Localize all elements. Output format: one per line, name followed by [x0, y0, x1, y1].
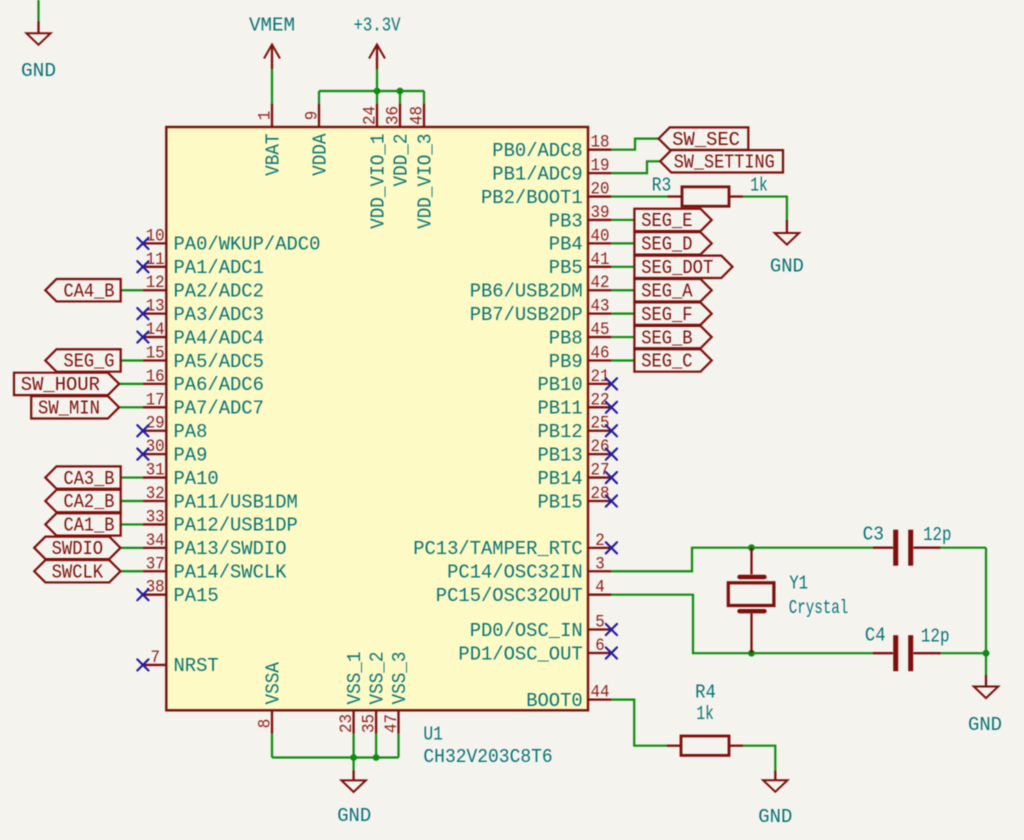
pin 31 PA10 (left) — [143, 462, 219, 490]
svg-text:PB15: PB15 — [538, 491, 583, 513]
svg-text:1k: 1k — [696, 703, 713, 725]
net name GND (near R4) — [758, 806, 792, 828]
pin 9 VDDA (top) — [304, 104, 332, 176]
wire pin4 (PC15) to crystal bottom net — [611, 595, 751, 654]
svg-text:16: 16 — [146, 368, 165, 387]
pin 42 PB6/USB2DM (right) — [470, 274, 612, 302]
no-connect X on pin 10 — [137, 238, 148, 249]
svg-text:PB7/USB2DP: PB7/USB2DP — [470, 304, 583, 326]
no-connect X on pin 14 — [137, 331, 148, 342]
global label SWDIO — [34, 537, 120, 560]
svg-text:PA3/ADC3: PA3/ADC3 — [174, 304, 264, 326]
wire VDD bus horizontal — [319, 90, 424, 92]
svg-text:GND: GND — [968, 714, 1002, 736]
svg-text:VSSA: VSSA — [263, 662, 285, 705]
wire pin to SEG_F — [611, 313, 634, 315]
svg-text:VSS_2: VSS_2 — [367, 652, 389, 705]
pin 45 PB8 (right) — [549, 321, 612, 349]
wire R3 to GND — [743, 197, 787, 220]
wire pin to SEG_C — [611, 359, 634, 361]
svg-text:9: 9 — [304, 111, 323, 121]
ground symbol (bottom) — [341, 770, 365, 792]
wire bus to pin 36 — [399, 91, 401, 104]
wire pin18 to SW_SEC — [611, 139, 658, 150]
ground symbol (top-left) — [26, 22, 50, 45]
Y1 value Crystal — [789, 597, 849, 619]
pin 44 BOOT0 (right) — [526, 684, 611, 712]
svg-text:SEG_D: SEG_D — [641, 234, 692, 256]
svg-text:VDD_VIO_1: VDD_VIO_1 — [368, 134, 390, 229]
svg-text:26: 26 — [591, 438, 610, 457]
svg-text:8: 8 — [257, 719, 276, 729]
power symbol +3.3V arrow — [369, 45, 385, 70]
svg-text:SWDIO: SWDIO — [52, 538, 104, 560]
U1 reference field — [423, 724, 443, 746]
svg-text:PD0/OSC_IN: PD0/OSC_IN — [470, 620, 583, 642]
wire bus to pin 24 — [376, 91, 378, 104]
svg-text:PB9: PB9 — [549, 351, 583, 373]
svg-text:31: 31 — [146, 462, 165, 481]
wire BOOT0 to R4 — [611, 700, 667, 746]
global label SEG_F — [634, 302, 711, 325]
svg-text:1k: 1k — [750, 175, 768, 197]
svg-text:PB12: PB12 — [538, 421, 583, 443]
pin 28 PB15 (right) — [538, 485, 612, 513]
no-connect X on pin 28 — [606, 495, 617, 506]
junction crystal bottom — [748, 650, 755, 657]
pin 36 VDD_2 (top) — [385, 104, 413, 187]
wire pin to SEG_D — [611, 242, 634, 244]
wire VSS bus to GND — [353, 758, 355, 771]
pin 39 PB3 (right) — [549, 204, 612, 232]
svg-text:39: 39 — [591, 204, 610, 223]
svg-text:SEG_DOT: SEG_DOT — [641, 257, 713, 279]
wire SEG_G to pin — [121, 359, 143, 361]
global label SW_HOUR — [14, 373, 119, 396]
pin 1 VBAT (top) — [257, 104, 285, 176]
no-connect X on pin 11 — [137, 261, 148, 272]
svg-text:VDD_2: VDD_2 — [391, 134, 413, 187]
svg-text:CA1_B: CA1_B — [64, 515, 115, 537]
svg-text:VDD_VIO_3: VDD_VIO_3 — [415, 134, 437, 229]
svg-text:PA1/ADC1: PA1/ADC1 — [174, 257, 264, 279]
ground symbol (near R3) — [775, 220, 799, 245]
wire to top-left GND — [37, 0, 39, 22]
svg-text:SWCLK: SWCLK — [52, 561, 104, 583]
pin 20 PB2/BOOT1 (right) — [481, 181, 611, 209]
no-connect X on pin 6 — [606, 647, 617, 658]
junction VSS_1 bus — [350, 754, 357, 761]
global label SEG_E — [634, 209, 711, 232]
svg-text:C4: C4 — [865, 624, 886, 646]
svg-text:C3: C3 — [863, 523, 884, 545]
svg-text:GND: GND — [21, 60, 56, 82]
wire pin23 VSS_1 down — [353, 734, 355, 758]
svg-text:SEG_F: SEG_F — [641, 304, 692, 326]
pin 8 VSSA (bottom) — [257, 662, 285, 734]
wire crystal top net to C3 — [752, 547, 874, 549]
svg-text:12p: 12p — [923, 524, 951, 546]
svg-text:GND: GND — [770, 256, 804, 278]
svg-text:42: 42 — [591, 274, 610, 293]
capacitor C4 — [873, 635, 941, 671]
pin 22 PB11 (right) — [538, 391, 612, 419]
svg-text:35: 35 — [361, 714, 380, 733]
pin 5 PD0/OSC_IN (right) — [470, 614, 612, 642]
svg-text:Crystal: Crystal — [789, 597, 849, 619]
net name GND (near R3) — [770, 256, 804, 278]
svg-text:20: 20 — [591, 181, 610, 200]
svg-text:34: 34 — [146, 532, 165, 551]
svg-text:PA15: PA15 — [174, 585, 219, 607]
pin 10 PA0/WKUP/ADC0 (left) — [143, 227, 321, 255]
global label CA3_B — [45, 466, 120, 489]
pin 18 PB0/ADC8 (right) — [492, 134, 611, 162]
svg-text:12: 12 — [146, 274, 165, 293]
svg-text:PA6/ADC6: PA6/ADC6 — [174, 374, 264, 396]
R3 reference label — [652, 175, 672, 197]
svg-text:SEG_E: SEG_E — [641, 210, 692, 232]
svg-text:28: 28 — [591, 485, 610, 504]
ground symbol (near R4) — [763, 771, 787, 792]
pin 17 PA7/ADC7 (left) — [143, 391, 264, 419]
svg-text:4: 4 — [595, 579, 605, 598]
junction right rail — [983, 650, 990, 657]
svg-text:PA0/WKUP/ADC0: PA0/WKUP/ADC0 — [174, 234, 321, 256]
pin 46 PB9 (right) — [549, 344, 612, 372]
global label SEG_B — [634, 326, 711, 349]
svg-text:U1: U1 — [423, 724, 443, 746]
R4 value 1k — [696, 703, 713, 725]
ground symbol (crystal) — [974, 675, 998, 698]
pin 15 PA5/ADC5 (left) — [143, 344, 264, 372]
global label SW_SETTING — [660, 150, 783, 173]
wire pin to SEG_DOT — [611, 266, 634, 268]
wire CA2_B to pin — [121, 500, 143, 502]
svg-text:GND: GND — [758, 806, 792, 828]
wire bus to pin 48 — [423, 91, 425, 104]
net name GND (bottom) — [337, 805, 371, 827]
svg-text:PB10: PB10 — [538, 374, 583, 396]
svg-text:SEG_C: SEG_C — [641, 351, 692, 373]
svg-text:PA10: PA10 — [174, 468, 219, 490]
wire CA1_B to pin — [121, 523, 143, 525]
wire SWCLK to pin — [121, 570, 143, 572]
net name VMEM — [249, 14, 295, 36]
svg-text:6: 6 — [595, 637, 605, 656]
pin 43 PB7/USB2DP (right) — [470, 298, 612, 326]
svg-text:41: 41 — [591, 251, 610, 270]
no-connect X on pin 26 — [606, 449, 617, 460]
global label CA2_B — [45, 490, 120, 513]
junction VSS_2 bus — [373, 754, 380, 761]
svg-text:PB13: PB13 — [538, 444, 583, 466]
pin 25 PB12 (right) — [538, 415, 612, 443]
IC U1 CH32V203C8T6 body — [166, 127, 588, 710]
no-connect X on pin 2 — [606, 542, 617, 553]
svg-text:Y1: Y1 — [789, 573, 808, 595]
svg-text:27: 27 — [591, 462, 610, 481]
wire pin to SEG_B — [611, 336, 634, 338]
global label SEG_D — [634, 232, 711, 255]
svg-text:PA14/SWCLK: PA14/SWCLK — [174, 562, 287, 584]
pin 47 VSS_3 (bottom) — [383, 652, 411, 734]
svg-text:33: 33 — [146, 508, 165, 527]
svg-text:15: 15 — [146, 344, 165, 363]
svg-text:PA12/USB1DP: PA12/USB1DP — [174, 515, 298, 537]
Y1 reference label — [789, 573, 808, 595]
resistor R3 — [667, 187, 743, 206]
svg-text:PA7/ADC7: PA7/ADC7 — [174, 398, 264, 420]
pin 29 PA8 (left) — [143, 415, 208, 443]
svg-text:37: 37 — [146, 555, 165, 574]
svg-text:CA3_B: CA3_B — [64, 468, 115, 490]
svg-text:VMEM: VMEM — [249, 14, 295, 36]
wire R4 to GND — [743, 746, 775, 771]
svg-text:PC15/OSC32OUT: PC15/OSC32OUT — [436, 585, 583, 607]
svg-text:R4: R4 — [695, 682, 716, 704]
pin 27 PB14 (right) — [538, 462, 612, 490]
svg-text:BOOT0: BOOT0 — [526, 690, 583, 712]
R4 reference label — [695, 682, 716, 704]
pin 2 PC13/TAMPER_RTC (right) — [413, 532, 611, 560]
svg-text:21: 21 — [591, 368, 610, 387]
svg-text:SEG_G: SEG_G — [64, 351, 115, 373]
junction crystal top — [748, 544, 755, 551]
svg-text:PB4: PB4 — [549, 234, 583, 256]
C4 reference label — [865, 624, 886, 646]
wire +3.3V down to VDD bus — [376, 69, 378, 91]
svg-text:25: 25 — [591, 415, 610, 434]
svg-text:3: 3 — [595, 555, 605, 574]
svg-text:PC13/TAMPER_RTC: PC13/TAMPER_RTC — [413, 538, 583, 560]
svg-text:PB6/USB2DM: PB6/USB2DM — [470, 281, 583, 303]
svg-text:SW_HOUR: SW_HOUR — [21, 374, 100, 396]
svg-text:22: 22 — [591, 391, 610, 410]
svg-text:5: 5 — [595, 614, 605, 633]
global label CA4_B — [45, 279, 120, 302]
wire pin47 VSS_3 down — [397, 734, 399, 758]
svg-text:PA11/USB1DM: PA11/USB1DM — [174, 491, 298, 513]
svg-text:SEG_A: SEG_A — [641, 280, 693, 302]
resistor R4 — [667, 736, 743, 755]
svg-text:PD1/OSC_OUT: PD1/OSC_OUT — [458, 643, 582, 665]
svg-text:36: 36 — [385, 106, 404, 125]
wire right rail down — [985, 548, 987, 654]
svg-text:PA4/ADC4: PA4/ADC4 — [174, 327, 264, 349]
global label SEG_G — [45, 349, 120, 372]
svg-text:CA2_B: CA2_B — [64, 491, 115, 513]
junction at pin36 bus — [397, 88, 404, 95]
wire SW_MIN to pin — [119, 406, 143, 408]
net name GND (top-left) — [21, 60, 56, 82]
svg-text:PB0/ADC8: PB0/ADC8 — [492, 140, 582, 162]
svg-text:VSS_3: VSS_3 — [389, 652, 411, 705]
pin 16 PA6/ADC6 (left) — [143, 368, 264, 396]
svg-text:19: 19 — [591, 157, 610, 176]
C3 value 12p — [923, 524, 951, 546]
wire right rail to GND — [985, 653, 987, 675]
svg-text:47: 47 — [383, 714, 402, 733]
wire pin35 VSS_2 down — [375, 734, 377, 758]
wire bus to pin 9 — [318, 91, 320, 104]
svg-text:PB5: PB5 — [549, 257, 583, 279]
pin 23 VSS_1 (bottom) — [338, 652, 366, 734]
pin 3 PC14/OSC32IN (right) — [447, 555, 611, 583]
svg-text:43: 43 — [591, 298, 610, 317]
pin 34 PA13/SWDIO (left) — [143, 532, 287, 560]
pin 26 PB13 (right) — [538, 438, 612, 466]
svg-text:PA2/ADC2: PA2/ADC2 — [174, 281, 264, 303]
svg-text:GND: GND — [337, 805, 371, 827]
wire VMEM to pin 1 — [271, 69, 273, 104]
svg-text:CA4_B: CA4_B — [64, 280, 115, 302]
global label SEG_A — [634, 279, 711, 302]
wire SWDIO to pin — [121, 547, 143, 549]
wire CA3_B to pin — [121, 476, 143, 478]
global label SEG_C — [634, 349, 711, 372]
wire pin19 to SW_SETTING — [611, 161, 660, 173]
svg-text:23: 23 — [338, 714, 357, 733]
no-connect X on pin 22 — [606, 402, 617, 413]
pin 21 PB10 (right) — [538, 368, 612, 396]
pin 33 PA12/USB1DP (left) — [143, 508, 298, 536]
svg-text:SW_MIN: SW_MIN — [38, 398, 100, 420]
wire C3 to right rail — [941, 547, 986, 549]
svg-text:SEG_B: SEG_B — [641, 327, 692, 349]
C3 reference label — [863, 523, 884, 545]
svg-text:PA13/SWDIO: PA13/SWDIO — [174, 538, 287, 560]
svg-text:7: 7 — [150, 649, 160, 668]
svg-text:+3.3V: +3.3V — [354, 14, 401, 36]
svg-text:VSS_1: VSS_1 — [344, 652, 366, 705]
svg-text:SW_SETTING: SW_SETTING — [674, 152, 775, 174]
no-connect X on pin 38 — [137, 589, 148, 600]
wire pin to SEG_E — [611, 219, 634, 221]
pin 38 PA15 (left) — [143, 579, 219, 607]
svg-text:48: 48 — [409, 106, 428, 125]
svg-text:45: 45 — [591, 321, 610, 340]
pin 30 PA9 (left) — [143, 438, 208, 466]
global label CA1_B — [45, 513, 120, 536]
wire pin to SEG_A — [611, 289, 634, 291]
pin 48 VDD_VIO_3 (top) — [409, 104, 437, 229]
crystal Y1 — [728, 548, 774, 654]
net name +3.3V — [354, 14, 401, 36]
pin 35 VSS_2 (bottom) — [361, 652, 389, 734]
wire VSS bus horizontal — [272, 756, 399, 758]
pin 41 PB5 (right) — [549, 251, 612, 279]
no-connect X on pin 7 — [137, 659, 148, 670]
svg-text:NRST: NRST — [174, 655, 219, 677]
wire crystal bottom net to C4 — [752, 652, 874, 654]
R3 value 1k — [750, 175, 768, 197]
global label SW_MIN — [31, 396, 119, 419]
svg-text:R3: R3 — [652, 175, 672, 197]
svg-text:40: 40 — [591, 227, 610, 246]
pin 19 PB1/ADC9 (right) — [492, 157, 611, 185]
svg-text:17: 17 — [146, 391, 165, 410]
svg-text:PB3: PB3 — [549, 210, 583, 232]
svg-text:PA9: PA9 — [174, 444, 208, 466]
pin 7 NRST (left) — [143, 649, 219, 677]
no-connect X on pin 27 — [606, 472, 617, 483]
C4 value 12p — [921, 625, 950, 647]
wire pin20 to R3 — [611, 195, 667, 197]
power symbol VMEM arrow — [264, 45, 280, 70]
wire SW_HOUR to pin — [119, 383, 143, 385]
svg-text:CH32V203C8T6: CH32V203C8T6 — [423, 746, 552, 768]
capacitor C3 — [873, 530, 941, 566]
global label SEG_DOT — [634, 256, 732, 279]
svg-text:PA5/ADC5: PA5/ADC5 — [174, 351, 264, 373]
svg-text:12p: 12p — [921, 625, 950, 647]
pin 32 PA11/USB1DM (left) — [143, 485, 298, 513]
svg-text:PC14/OSC32IN: PC14/OSC32IN — [447, 562, 583, 584]
svg-text:PB14: PB14 — [538, 468, 583, 490]
svg-text:PB8: PB8 — [549, 327, 583, 349]
wire CA4_B to pin — [121, 289, 143, 291]
no-connect X on pin 21 — [606, 378, 617, 389]
svg-text:PB2/BOOT1: PB2/BOOT1 — [481, 187, 583, 209]
no-connect X on pin 13 — [137, 308, 148, 319]
pin 14 PA4/ADC4 (left) — [143, 321, 264, 349]
no-connect X on pin 30 — [137, 449, 148, 460]
svg-text:46: 46 — [591, 344, 610, 363]
no-connect X on pin 29 — [137, 425, 148, 436]
no-connect X on pin 25 — [606, 425, 617, 436]
pin 37 PA14/SWCLK (left) — [143, 555, 287, 583]
global label SWCLK — [34, 560, 120, 583]
pin 4 PC15/OSC32OUT (right) — [436, 579, 612, 607]
svg-text:44: 44 — [591, 684, 610, 703]
svg-text:VDDA: VDDA — [310, 133, 332, 176]
svg-text:2: 2 — [595, 532, 605, 551]
pin 24 VDD_VIO_1 (top) — [362, 104, 390, 229]
svg-text:SW_SEC: SW_SEC — [672, 129, 740, 151]
net name GND (crystal) — [968, 714, 1002, 736]
svg-text:1: 1 — [257, 111, 276, 121]
wire C4 to right rail — [941, 652, 986, 654]
junction at pin24 bus — [374, 88, 381, 95]
svg-text:PB1/ADC9: PB1/ADC9 — [492, 163, 582, 185]
wire pin3 (PC14) to crystal top net — [611, 548, 751, 572]
svg-text:PB11: PB11 — [538, 398, 583, 420]
no-connect X on pin 5 — [606, 624, 617, 635]
pin 6 PD1/OSC_OUT (right) — [458, 637, 611, 665]
U1 value field — [423, 746, 552, 768]
pin 13 PA3/ADC3 (left) — [143, 298, 264, 326]
svg-text:VBAT: VBAT — [263, 133, 285, 176]
global label SW_SEC — [659, 127, 749, 150]
svg-text:18: 18 — [591, 134, 610, 153]
pin 12 PA2/ADC2 (left) — [143, 274, 264, 302]
pin 40 PB4 (right) — [549, 227, 612, 255]
svg-text:32: 32 — [146, 485, 165, 504]
svg-text:24: 24 — [362, 106, 381, 125]
wire pin8 VSSA down — [271, 734, 273, 758]
pin 11 PA1/ADC1 (left) — [143, 251, 264, 279]
svg-text:PA8: PA8 — [174, 421, 208, 443]
